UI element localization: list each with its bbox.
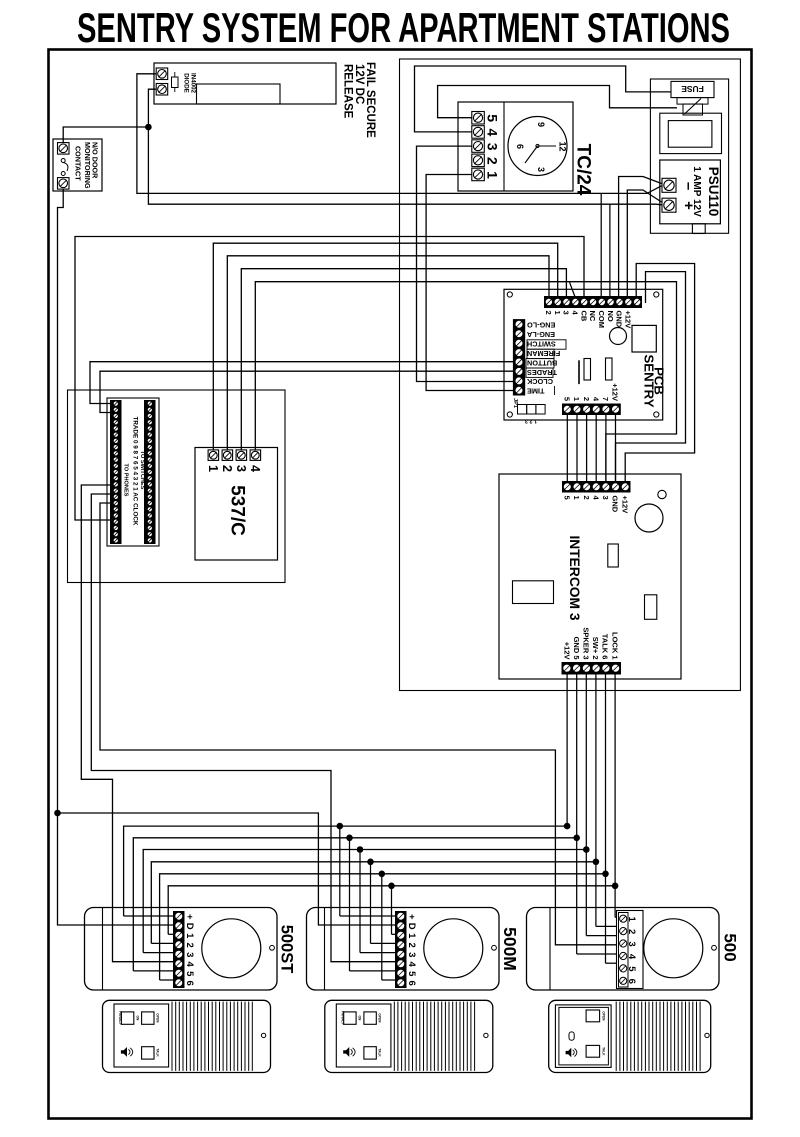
enclosure box right (control panel) <box>400 59 741 691</box>
svg-text:7: 7 <box>601 397 610 401</box>
svg-text:500M: 500M <box>500 927 520 971</box>
PCB small components <box>579 358 612 384</box>
svg-text:BUTTON: BUTTON <box>527 358 557 367</box>
label 500 <box>721 933 740 961</box>
svg-text:TRADES: TRADES <box>527 368 557 377</box>
wire door contact bottom down left side <box>58 189 174 925</box>
wires PCB bottom strip to intercom top strip <box>567 415 615 482</box>
timer 537/C <box>195 448 278 561</box>
svg-text:3: 3 <box>406 952 417 957</box>
wire PCB to intercom +12V wrap <box>625 264 694 482</box>
wire PCB GND to PSU minus <box>619 177 662 297</box>
svg-text:PRIVACY: PRIVACY <box>118 1011 122 1026</box>
svg-text:6: 6 <box>184 981 195 986</box>
wire speaker 4 to station 500M <box>91 494 395 962</box>
svg-text:3: 3 <box>485 143 501 151</box>
svg-text:3: 3 <box>536 167 546 172</box>
svg-text:2: 2 <box>582 397 591 401</box>
PCB left terminal strip <box>513 320 524 395</box>
svg-text:CB: CB <box>579 311 588 322</box>
svg-text:4: 4 <box>406 962 417 968</box>
svg-text:+12V: +12V <box>624 311 633 329</box>
svg-text:1: 1 <box>572 496 581 500</box>
svg-text:OPEN: OPEN <box>378 1013 382 1023</box>
svg-text:D: D <box>406 923 417 930</box>
svg-text:5: 5 <box>406 971 417 977</box>
wire bus strip to PCB CB <box>75 237 584 521</box>
label TC/24 <box>573 144 594 196</box>
apartment station 500ST <box>85 908 278 991</box>
wire TC/24 terminal 4 to fuse <box>415 66 672 132</box>
PCB bottom strip labels <box>563 383 620 402</box>
svg-text:1 AMP 12V: 1 AMP 12V <box>691 166 702 217</box>
svg-text:SPKER 3: SPKER 3 <box>582 627 591 659</box>
svg-text:D: D <box>184 923 195 930</box>
N/O door monitoring contact <box>53 139 102 191</box>
PCB top strip labels <box>544 311 632 329</box>
svg-text:GND 5: GND 5 <box>572 637 581 660</box>
svg-text:500ST: 500ST <box>278 925 296 974</box>
svg-text:9: 9 <box>536 122 546 127</box>
label 500M <box>500 927 520 971</box>
svg-text:3: 3 <box>562 311 571 315</box>
svg-text:TALK 6: TALK 6 <box>601 634 610 660</box>
svg-text:5: 5 <box>184 971 195 977</box>
wire release terminal 1 to PSU minus and PCB COM <box>137 74 662 297</box>
fuse F1 <box>671 81 714 115</box>
svg-text:ENG-LO: ENG-LO <box>527 321 556 330</box>
wire bus D to station 500M <box>54 810 395 925</box>
bus wire 3 to stations <box>143 846 586 952</box>
label PSU110 1 AMP 12V <box>691 166 721 217</box>
svg-text:5: 5 <box>485 114 501 122</box>
PCB relay <box>632 325 656 352</box>
svg-text:1: 1 <box>485 171 501 179</box>
fail secure 12V DC release <box>154 63 336 104</box>
svg-text:2: 2 <box>544 311 553 315</box>
PSU enclosure <box>650 79 728 233</box>
svg-text:CONTACT: CONTACT <box>73 146 82 181</box>
wire 537/C 4 to PCB 4 and intercom 3 <box>255 282 676 482</box>
wire 537/C 1 to PCB 1 <box>213 243 557 450</box>
handset panel for 500ST <box>103 1000 271 1072</box>
intercom top terminal strip <box>563 482 631 493</box>
svg-text:1: 1 <box>572 397 581 401</box>
handset panel for 500 <box>549 1000 711 1072</box>
intercom 3 board <box>499 474 681 679</box>
svg-text:TALK: TALK <box>602 1047 606 1056</box>
svg-text:3: 3 <box>234 465 248 472</box>
label 537/C <box>227 485 248 536</box>
svg-text:2: 2 <box>626 929 637 934</box>
svg-text:4: 4 <box>248 465 262 472</box>
svg-text:1: 1 <box>406 933 417 939</box>
PCB left strip labels <box>526 321 566 396</box>
svg-text:COM: COM <box>597 311 606 329</box>
svg-text:ON: ON <box>358 1016 362 1021</box>
svg-text:6: 6 <box>406 981 417 986</box>
svg-text:SWITCH: SWITCH <box>527 340 556 349</box>
bus wire 5 to stations <box>133 835 576 971</box>
svg-text:ON: ON <box>135 1016 139 1021</box>
svg-text:5: 5 <box>626 966 637 972</box>
wire release terminal 2 to PSU plus and PCB NO <box>148 89 661 296</box>
PCB bottom terminal strip <box>563 404 621 415</box>
apartment station 500 <box>527 908 720 991</box>
transformer <box>660 113 722 153</box>
svg-text:NO: NO <box>606 311 615 322</box>
svg-text:LOCK 1: LOCK 1 <box>610 632 619 660</box>
svg-text:GND: GND <box>615 311 624 328</box>
svg-text:IN4002: IN4002 <box>190 73 197 94</box>
intercom components <box>513 544 657 619</box>
wire door contact top to release junction <box>63 124 152 143</box>
apartment station 500M <box>307 908 500 991</box>
svg-text:1: 1 <box>553 311 562 315</box>
sentry PCB board <box>504 289 663 420</box>
svg-text:JP1: JP1 <box>512 398 518 408</box>
svg-text:SW+ 2: SW+ 2 <box>591 637 600 660</box>
svg-text:GND: GND <box>611 496 620 513</box>
wire PCB to intercom GND wrap <box>616 272 686 482</box>
timer TC/24 <box>458 102 573 191</box>
intercom bottom terminal strip <box>562 663 621 675</box>
svg-text:OPEN: OPEN <box>602 1011 606 1021</box>
svg-text:PSU110: PSU110 <box>706 167 721 217</box>
clock face <box>508 117 568 176</box>
svg-text:6: 6 <box>626 979 637 984</box>
label N/O DOOR MONITORING CONTACT <box>73 142 99 189</box>
svg-text:1 2 3: 1 2 3 <box>525 418 537 424</box>
svg-text:FUSE: FUSE <box>681 84 704 94</box>
svg-text:4: 4 <box>485 129 501 137</box>
svg-text:CLOCK: CLOCK <box>526 377 553 386</box>
svg-text:TO PHONES: TO PHONES <box>123 464 129 497</box>
wire intercom to bus and station 500 T6 <box>602 674 616 963</box>
svg-text:+12V: +12V <box>562 642 571 660</box>
wire 537/C 3 to PCB 3 <box>241 269 566 450</box>
intercom circles <box>635 490 666 532</box>
wire intercom to bus and station 500 T2 <box>593 674 616 926</box>
svg-text:+: + <box>406 914 417 920</box>
wire PCB TRADES to bus strip <box>100 371 513 412</box>
svg-text:PCB: PCB <box>652 367 667 395</box>
svg-text:TRADE 0 9 8 7 6 5 4 3 2 1 AC C: TRADE 0 9 8 7 6 5 4 3 2 1 AC CLOCK <box>131 417 138 526</box>
svg-text:12: 12 <box>558 141 568 151</box>
label 500ST <box>278 925 296 974</box>
svg-text:SENTRY SYSTEM FOR APARTMENT ST: SENTRY SYSTEM FOR APARTMENT STATIONS <box>77 4 730 51</box>
svg-text:TIME: TIME <box>527 387 545 396</box>
svg-text:3: 3 <box>184 952 195 957</box>
label SENTRY PCB <box>642 354 667 407</box>
svg-text:FIREMAN: FIREMAN <box>527 349 560 358</box>
svg-text:2: 2 <box>406 943 417 948</box>
jumper JP1 <box>512 398 545 423</box>
bus strip labels <box>123 417 145 526</box>
svg-text:2: 2 <box>220 465 234 472</box>
intercom bottom strip labels <box>562 627 619 659</box>
svg-text:2: 2 <box>582 496 591 500</box>
svg-text:INTERCOM 3: INTERCOM 3 <box>567 535 582 620</box>
svg-text:MONITORING: MONITORING <box>83 142 92 189</box>
svg-text:NC: NC <box>588 311 597 322</box>
svg-text:5: 5 <box>563 496 572 500</box>
svg-text:+12V: +12V <box>611 383 620 401</box>
wire PCB +12V to PSU plus <box>627 190 661 297</box>
svg-text:4: 4 <box>184 962 195 968</box>
svg-text:2: 2 <box>184 943 195 948</box>
wire intercom to bus and station 500 T3 <box>583 674 616 936</box>
title <box>77 4 730 51</box>
wire intercom to bus and station 500 T1 <box>612 674 619 917</box>
svg-text:12V DC: 12V DC <box>353 64 365 104</box>
wire speaker 4 to station 500 <box>100 503 616 945</box>
svg-text:1: 1 <box>626 917 637 923</box>
wire TC/24 terminal 5 to fuse <box>438 86 677 118</box>
svg-text:TALK: TALK <box>378 1048 382 1057</box>
bus wire 1 to stations <box>168 883 615 935</box>
wire TC/24 terminal 1 to PCB TIME <box>426 175 513 391</box>
handset panel for 500M <box>325 1000 493 1072</box>
power supply PSU110 <box>660 160 721 234</box>
PCB buzzer <box>610 328 627 345</box>
svg-text:+12V: +12V <box>620 496 629 514</box>
svg-text:500: 500 <box>721 933 740 961</box>
wire intercom +12V to bus <box>564 674 571 829</box>
svg-text:4: 4 <box>626 954 637 960</box>
wire intercom to bus and station 500 T5 <box>573 674 616 954</box>
svg-text:+: + <box>184 914 195 920</box>
svg-text:PRIVACY: PRIVACY <box>340 1011 344 1026</box>
bus wire + to stations <box>124 823 567 916</box>
svg-text:1: 1 <box>184 933 195 939</box>
enclosure box left (537/C panel) <box>68 390 286 583</box>
svg-text:OPEN: OPEN <box>155 1013 159 1023</box>
svg-text:TALK: TALK <box>155 1048 159 1057</box>
wire PCB BUTTON to bus strip <box>90 362 513 404</box>
PCB top terminal strip <box>545 297 642 308</box>
svg-text:1: 1 <box>206 465 220 472</box>
wire speaker 4 to station 500ST <box>81 485 173 962</box>
svg-text:6: 6 <box>515 144 525 149</box>
svg-text:3: 3 <box>626 941 637 946</box>
svg-text:2: 2 <box>485 157 501 165</box>
svg-text:ENG-LA: ENG-LA <box>526 330 555 339</box>
svg-text:DIODE: DIODE <box>183 73 190 93</box>
svg-text:TC/24: TC/24 <box>573 144 594 196</box>
svg-text:5: 5 <box>563 397 572 401</box>
label INTERCOM 3 <box>567 535 582 620</box>
intercom top strip labels <box>563 496 630 514</box>
bus wire 6 to stations <box>160 871 606 981</box>
wire TC/24 terminal 3 to PCB CLOCK <box>417 146 514 381</box>
svg-text:TO SWITCHES: TO SWITCHES <box>139 451 145 490</box>
bus terminal strips to panels <box>107 398 159 546</box>
svg-text:537/C: 537/C <box>227 485 248 536</box>
bus wire 2 to stations <box>151 859 596 944</box>
wire 537/C 2 to PCB 2 <box>227 256 549 450</box>
label FAIL SECURE 12V DC RELEASE <box>342 62 377 138</box>
svg-text:3: 3 <box>601 496 610 500</box>
svg-text:RELEASE: RELEASE <box>342 64 354 119</box>
